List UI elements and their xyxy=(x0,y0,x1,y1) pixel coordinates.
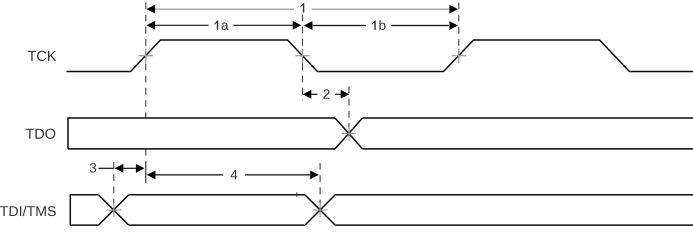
dimension 1b right arrowhead xyxy=(449,21,458,30)
cross marker at TCK rising edge xyxy=(139,49,154,64)
dashed guide line at TCK falling edge x=302 xyxy=(302,15,304,101)
small junction tick on TDI/TMS top line xyxy=(296,192,298,197)
dimension 4 left arrowhead xyxy=(147,171,156,180)
TDO bus white fill (masks dashed line inside) xyxy=(68,118,349,149)
dashed guide line at TCK second rising edge x=458 xyxy=(458,3,460,64)
dimension 1a left arrowhead xyxy=(147,21,156,30)
signal label TDI/TMS xyxy=(0,206,56,216)
cross marker at TDI/TMS first transition xyxy=(107,203,122,218)
dimension 4 right arrowhead xyxy=(310,171,319,180)
dimension 4 line xyxy=(155,174,224,176)
cross marker at TCK second rising edge xyxy=(452,49,467,64)
label 1b xyxy=(372,20,386,30)
cross marker at TCK falling edge xyxy=(295,49,309,64)
label 1a xyxy=(214,21,228,30)
dimension 2 right arrowhead xyxy=(341,90,350,99)
dashed guide line at TDI/TMS first transition x=113 xyxy=(113,162,115,210)
solid witness line at x=145 between dims 3 and 4 xyxy=(145,162,147,183)
TDI/TMS bus outline xyxy=(70,195,693,225)
label 3 xyxy=(90,163,96,173)
dashed guide line at TDI/TMS second transition x=319 xyxy=(319,163,321,211)
dimension 1 line (gray) xyxy=(155,8,295,10)
dimension 1b left arrowhead xyxy=(304,21,313,30)
dashed guide line at TCK first rising edge x=145 xyxy=(145,3,147,163)
dimension 1b line xyxy=(313,25,367,27)
TDI/TMS bus white fill xyxy=(70,195,113,225)
dimension 1a line xyxy=(155,24,209,26)
dimension 2 left arrowhead xyxy=(303,90,312,99)
label 4 xyxy=(231,170,238,179)
dimension 1 right arrowhead xyxy=(449,5,458,14)
label 1 xyxy=(300,3,304,12)
TDO bus outline xyxy=(68,118,693,149)
signal label TCK xyxy=(28,51,57,61)
dimension 3 left arrowhead xyxy=(115,164,124,173)
dimension 1 left arrowhead xyxy=(147,5,156,14)
cross marker at TDO transition xyxy=(342,126,357,141)
dimension 2 left stub line xyxy=(311,93,318,95)
TCK waveform xyxy=(67,40,693,72)
label 2 xyxy=(323,89,329,98)
dimension 3 right arrowhead xyxy=(136,164,145,173)
dimension 3 leader line xyxy=(99,167,114,169)
dimension 2 right stub line xyxy=(335,93,342,95)
dimension 3 span line xyxy=(123,167,137,169)
signal label TDO xyxy=(26,129,56,139)
dimension 1a right arrowhead xyxy=(293,21,302,30)
cross marker at TDI/TMS second transition xyxy=(313,203,328,218)
dashed guide line at TDO transition x=348 xyxy=(348,87,350,134)
